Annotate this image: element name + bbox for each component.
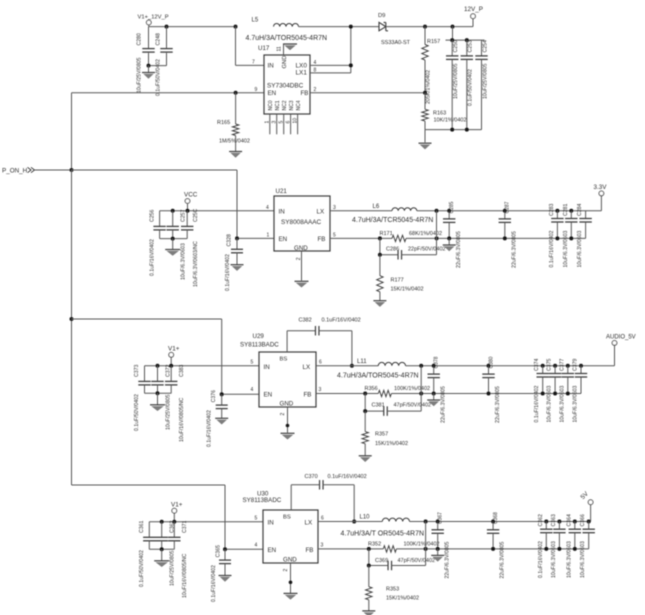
- svg-text:EN: EN: [268, 547, 277, 554]
- svg-text:2: 2: [280, 413, 286, 416]
- svg-text:U29: U29: [253, 333, 265, 340]
- ground: [231, 265, 244, 271]
- net VCC terminal: [184, 192, 198, 211]
- svg-text:BS: BS: [283, 514, 291, 520]
- op-amp U30 regulator box: [243, 491, 319, 564]
- svg-text:10uF/6.3V/0603: 10uF/6.3V/0603: [563, 230, 569, 267]
- ground: [359, 456, 372, 462]
- svg-text:R356: R356: [365, 386, 378, 392]
- svg-text:10uF/16V/0805/NC: 10uF/16V/0805/NC: [182, 553, 188, 598]
- svg-text:C368: C368: [493, 512, 499, 524]
- capacitor C381 feedforward: [365, 394, 431, 416]
- svg-text:U21: U21: [276, 188, 288, 195]
- svg-text:R352: R352: [368, 541, 381, 547]
- svg-text:SY8113BADC: SY8113BADC: [240, 342, 279, 349]
- wire VOUT tap: [419, 364, 423, 411]
- svg-text:L5: L5: [252, 18, 259, 24]
- svg-text:4: 4: [266, 205, 269, 211]
- net 12V_P output terminal: [464, 6, 483, 27]
- capacitor C284: [577, 203, 592, 267]
- capacitor C361: [139, 520, 156, 587]
- svg-text:NC1: NC1: [275, 100, 281, 110]
- ground: [419, 130, 432, 150]
- wire cluster bottom bus and ground: [160, 237, 188, 256]
- capacitor C256: [149, 209, 165, 276]
- svg-text:15K/1%/0402: 15K/1%/0402: [386, 596, 419, 602]
- svg-text:FB: FB: [301, 90, 309, 97]
- svg-text:R177: R177: [391, 278, 404, 284]
- resistor R171: [380, 231, 443, 242]
- svg-text:C366: C366: [580, 514, 586, 527]
- svg-text:22uF/6.3V/0805: 22uF/6.3V/0805: [511, 231, 517, 268]
- wire 3.3V output rail: [417, 196, 602, 211]
- net AUDIO_5V terminal: [606, 335, 636, 346]
- wire diode to 12V_P terminal: [386, 26, 473, 28]
- svg-text:0.1uF/16V/0402: 0.1uF/16V/0402: [538, 541, 544, 578]
- wire FB line: [330, 236, 586, 240]
- wire LX to L6: [330, 210, 392, 212]
- capacitor C368 output 22uF: [487, 512, 506, 579]
- svg-text:C377: C377: [559, 358, 565, 371]
- capacitor C362: [156, 520, 176, 586]
- capacitor C250: [446, 38, 459, 130]
- wire LX to L11: [316, 364, 378, 368]
- svg-text:1: 1: [267, 232, 270, 238]
- capacitor C248: [149, 25, 173, 96]
- capacitor C367 output 22uF: [432, 512, 451, 579]
- capacitor C372: [151, 364, 171, 430]
- svg-text:4.7uH/3A/T OR5045-4R7N: 4.7uH/3A/T OR5045-4R7N: [341, 530, 425, 537]
- svg-text:6: 6: [285, 121, 291, 124]
- svg-text:3: 3: [319, 387, 322, 393]
- wire LX to L10: [318, 520, 382, 524]
- capacitor C254: [475, 40, 488, 130]
- svg-text:C383: C383: [179, 364, 185, 377]
- svg-text:22uF/6.3V/0805: 22uF/6.3V/0805: [500, 541, 506, 578]
- capacitor C328 EN filter: [225, 234, 243, 291]
- svg-text:C374: C374: [534, 358, 540, 371]
- wire input rail: [145, 364, 260, 368]
- svg-text:10: 10: [292, 118, 298, 124]
- svg-text:5: 5: [251, 360, 254, 366]
- svg-text:47pF/50V/0402: 47pF/50V/0402: [394, 403, 432, 409]
- svg-text:EN: EN: [268, 90, 277, 97]
- ground: [229, 152, 242, 158]
- svg-text:R357: R357: [375, 432, 388, 438]
- svg-text:NC4: NC4: [296, 100, 302, 110]
- svg-text:0.1uF/16V/0402: 0.1uF/16V/0402: [328, 474, 367, 480]
- svg-text:15K/1%/0402: 15K/1%/0402: [391, 287, 424, 293]
- svg-text:10uF/25V/0805: 10uF/25V/0805: [170, 550, 176, 586]
- svg-text:9: 9: [255, 87, 258, 93]
- svg-text:C363: C363: [551, 514, 557, 527]
- svg-text:10uF/6.3V/0603: 10uF/6.3V/0603: [580, 541, 586, 578]
- wire EN bus to U17: [72, 93, 265, 170]
- node P_ON_H port: [2, 167, 74, 174]
- pin 2 GND stem and ground: [295, 251, 309, 288]
- svg-text:C365: C365: [216, 545, 222, 558]
- wire FB net: [310, 92, 425, 94]
- wire EN branch from bus: [72, 485, 264, 551]
- svg-text:C371: C371: [182, 520, 188, 533]
- svg-text:5: 5: [279, 121, 285, 124]
- svg-text:R157: R157: [427, 39, 440, 45]
- svg-text:BS: BS: [280, 357, 288, 363]
- svg-text:15K/1%/0402: 15K/1%/0402: [375, 441, 408, 447]
- svg-text:0.1uF/50V/0402: 0.1uF/50V/0402: [134, 394, 140, 431]
- capacitor C25C: [181, 208, 199, 287]
- svg-text:C25C: C25C: [193, 208, 199, 222]
- svg-text:C367: C367: [438, 512, 444, 524]
- svg-text:5: 5: [255, 515, 258, 521]
- svg-text:C375: C375: [547, 358, 553, 371]
- svg-text:EN: EN: [279, 236, 288, 243]
- net 3.3V terminal: [594, 184, 608, 196]
- svg-text:1M/5%/0402: 1M/5%/0402: [219, 139, 250, 145]
- inductor L11: [337, 359, 419, 379]
- capacitor C280: [137, 27, 155, 93]
- capacitor C363: [551, 514, 566, 578]
- svg-text:3: 3: [321, 543, 324, 549]
- inductor L10: [341, 515, 425, 538]
- wire EN branch from bus: [70, 317, 260, 396]
- svg-text:10uF/6.3V/0603: 10uF/6.3V/0603: [559, 385, 565, 422]
- svg-text:10uF/6.3V/0603: 10uF/6.3V/0603: [577, 230, 583, 267]
- pin 2 GND stem and ground: [283, 563, 298, 600]
- op-amp U17 regulator box: [258, 45, 310, 114]
- svg-text:LX0: LX0: [296, 62, 308, 69]
- svg-text:10uF/25V/0805: 10uF/25V/0805: [482, 63, 488, 99]
- svg-text:10uF/6.3V/0603: 10uF/6.3V/0603: [551, 541, 557, 578]
- svg-text:0.1uF/16V/0402: 0.1uF/16V/0402: [207, 410, 213, 447]
- capacitor C283: [549, 203, 564, 267]
- svg-text:22pF/50V/0402: 22pF/50V/0402: [408, 246, 446, 252]
- svg-text:100K/1%/0402: 100K/1%/0402: [404, 541, 440, 547]
- capacitor C364: [566, 514, 581, 578]
- svg-text:LX1: LX1: [296, 70, 308, 77]
- svg-text:47pF/50V/0402: 47pF/50V/0402: [398, 558, 436, 564]
- capacitor C286 feedforward: [380, 238, 446, 259]
- svg-text:22uF/6.3V/0805: 22uF/6.3V/0805: [495, 386, 501, 423]
- diode D9 SS33A0-ST: [378, 13, 411, 46]
- capacitor C377: [559, 358, 574, 422]
- svg-text:12V_P: 12V_P: [464, 6, 483, 13]
- wire EN branch from P_ON_H: [72, 170, 275, 240]
- svg-text:4.7uH/3A/TCR5045-4R7N: 4.7uH/3A/TCR5045-4R7N: [352, 217, 433, 224]
- svg-text:SY8113BADC: SY8113BADC: [243, 497, 282, 504]
- wire AUDIO_5V output rail: [406, 346, 615, 366]
- svg-text:GND: GND: [283, 556, 297, 563]
- resistor R352: [368, 541, 440, 552]
- capacitor C285 output 22uF: [443, 201, 462, 268]
- capacitor C380 output 22uF: [482, 356, 501, 423]
- svg-text:R165: R165: [217, 120, 230, 126]
- svg-text:10uF/25V/0805: 10uF/25V/0805: [166, 394, 172, 430]
- wire VCC input rail: [160, 209, 274, 213]
- svg-text:22uF/6.3V/0805: 22uF/6.3V/0805: [456, 231, 462, 268]
- svg-text:C285: C285: [449, 201, 455, 213]
- capacitor C374: [534, 358, 549, 422]
- capacitor C382 bootstrap: [287, 317, 361, 366]
- wire V1+ to IN pin: [234, 25, 265, 66]
- ground: [431, 549, 444, 562]
- svg-text:0.1uF/50V/0402: 0.1uF/50V/0402: [156, 59, 162, 96]
- capacitor C281: [563, 203, 578, 267]
- svg-text:IN: IN: [279, 208, 285, 215]
- svg-text:1: 1: [265, 121, 271, 124]
- pin 11 ground above U17: [277, 44, 298, 55]
- svg-text:U17: U17: [258, 45, 270, 52]
- svg-text:10uF/6.3V/0603: 10uF/6.3V/0603: [547, 385, 553, 422]
- svg-text:10K/1%/0402: 10K/1%/0402: [434, 118, 467, 124]
- svg-text:7: 7: [252, 60, 255, 66]
- wire cap bank bottom bus: [425, 128, 482, 132]
- svg-text:C372: C372: [166, 364, 172, 377]
- svg-text:0.1uF/16V/0402: 0.1uF/16V/0402: [534, 385, 540, 422]
- svg-text:C364: C364: [566, 514, 572, 527]
- ground: [427, 394, 440, 407]
- svg-text:0.1uF/16V/0402: 0.1uF/16V/0402: [149, 239, 155, 276]
- net 5V terminal: [579, 490, 593, 505]
- capacitor C362 output: [538, 514, 553, 578]
- svg-text:C283: C283: [549, 203, 555, 216]
- net V1+ 12V_P input terminal: [138, 15, 169, 27]
- wire FB line: [316, 392, 581, 396]
- svg-text:10uF/25V/0805: 10uF/25V/0805: [137, 57, 143, 93]
- svg-text:3: 3: [333, 205, 336, 211]
- pin 2 GND stem and ground: [280, 407, 295, 440]
- svg-text:SY8008AAAC: SY8008AAAC: [281, 219, 322, 226]
- svg-text:VCC: VCC: [184, 192, 198, 199]
- svg-text:68K/1%/0402: 68K/1%/0402: [409, 231, 442, 237]
- svg-text:C361: C361: [139, 520, 145, 533]
- svg-text:L11: L11: [357, 359, 367, 365]
- svg-text:0.1uF/50V/0402: 0.1uF/50V/0402: [468, 69, 474, 106]
- svg-text:C373: C373: [134, 364, 140, 377]
- ground: [362, 611, 375, 615]
- svg-text:6: 6: [319, 360, 322, 366]
- wire L5 to diode: [299, 26, 379, 28]
- capacitor C371: [168, 520, 188, 598]
- capacitor C369 feedforward: [369, 549, 435, 570]
- svg-text:V1+: V1+: [168, 346, 180, 353]
- svg-text:11: 11: [277, 46, 283, 51]
- svg-text:205K/1%/0402: 205K/1%/0402: [426, 70, 432, 104]
- NC pin stubs: [265, 114, 299, 134]
- svg-text:C287: C287: [505, 201, 511, 213]
- ground: [443, 238, 456, 251]
- svg-text:6: 6: [321, 515, 324, 521]
- resistor R356: [365, 386, 431, 397]
- svg-text:4.7uH/3A/TOR5045-4R7N: 4.7uH/3A/TOR5045-4R7N: [337, 372, 419, 379]
- svg-text:C382: C382: [299, 317, 312, 323]
- resistor R157: [422, 25, 440, 104]
- capacitor C379: [573, 358, 588, 422]
- svg-text:C286: C286: [386, 246, 399, 252]
- wire FB line: [318, 547, 589, 551]
- svg-text:V1+_12V_P: V1+_12V_P: [138, 15, 169, 21]
- svg-text:C379: C379: [573, 358, 579, 371]
- svg-text:10uF/6.3V/0603/NC: 10uF/6.3V/0603/NC: [193, 241, 199, 287]
- wire 12V input rail: [149, 26, 236, 28]
- svg-text:0.1uF/16V/0402: 0.1uF/16V/0402: [549, 230, 555, 267]
- op-amp U29 regulator box: [240, 333, 316, 407]
- capacitor C257: [167, 209, 187, 280]
- svg-text:SY7304DBC: SY7304DBC: [267, 83, 304, 90]
- svg-text:100K/1%/0402: 100K/1%/0402: [394, 386, 430, 392]
- svg-text:LX: LX: [317, 208, 325, 215]
- ground: [219, 576, 232, 582]
- svg-text:10uF/25V/0805: 10uF/25V/0805: [453, 63, 459, 99]
- svg-text:C284: C284: [577, 203, 583, 216]
- wire P_ON_H bus down left side: [71, 170, 73, 485]
- wire 5V output rail: [410, 505, 591, 522]
- resistor R177: [377, 253, 424, 301]
- svg-text:C370: C370: [305, 474, 318, 480]
- svg-text:C253: C253: [468, 40, 474, 53]
- capacitor C365 EN filter: [211, 545, 231, 602]
- svg-text:GND: GND: [280, 400, 294, 407]
- wire VOUT tap: [435, 209, 439, 255]
- inductor L6: [352, 204, 433, 224]
- svg-text:GND: GND: [294, 245, 308, 252]
- svg-text:L6: L6: [373, 204, 380, 210]
- svg-text:C250: C250: [453, 40, 459, 53]
- capacitor C383: [165, 364, 185, 442]
- svg-text:NC2: NC2: [282, 100, 288, 110]
- svg-text:P_ON_H: P_ON_H: [2, 167, 28, 174]
- svg-text:C280: C280: [137, 33, 143, 46]
- svg-text:0.1uF/16V/0402: 0.1uF/16V/0402: [322, 317, 361, 323]
- svg-text:2: 2: [296, 257, 302, 260]
- svg-text:AUDIO_5V: AUDIO_5V: [606, 335, 636, 341]
- svg-text:4: 4: [255, 543, 258, 549]
- svg-text:EN: EN: [264, 391, 273, 398]
- svg-text:FB: FB: [306, 547, 314, 554]
- svg-text:C328: C328: [227, 234, 233, 247]
- resistor R163: [422, 91, 467, 130]
- svg-text:LX: LX: [303, 364, 311, 371]
- svg-text:C257: C257: [181, 209, 187, 222]
- ground: [142, 64, 155, 79]
- svg-text:NC3: NC3: [289, 100, 295, 110]
- svg-text:10uF/6.3V/0603: 10uF/6.3V/0603: [566, 541, 572, 578]
- svg-text:C256: C256: [149, 209, 155, 222]
- svg-text:3.3V: 3.3V: [594, 184, 608, 191]
- net V1+ terminal: [168, 346, 180, 366]
- capacitor C253: [461, 38, 474, 130]
- ground: [215, 418, 228, 424]
- svg-text:C362: C362: [538, 514, 544, 527]
- svg-text:22uF/6.3V/0805: 22uF/6.3V/0805: [444, 541, 450, 578]
- svg-text:10uF/6.3V/0603: 10uF/6.3V/0603: [181, 243, 187, 280]
- resistor R165: [217, 91, 250, 152]
- capacitor C375: [547, 358, 562, 422]
- svg-text:4.7uH/3A/TOR5045-4R7N: 4.7uH/3A/TOR5045-4R7N: [246, 35, 328, 42]
- svg-text:IN: IN: [268, 520, 274, 527]
- svg-text:IN: IN: [268, 62, 274, 69]
- wire input rail: [149, 520, 263, 524]
- capacitor C370 bootstrap: [291, 474, 366, 521]
- svg-text:C248: C248: [156, 33, 162, 46]
- svg-text:2: 2: [283, 569, 289, 572]
- wire VOUT tap: [424, 520, 428, 566]
- svg-text:4: 4: [251, 387, 254, 393]
- svg-text:C281: C281: [563, 203, 569, 216]
- svg-text:R353: R353: [386, 587, 399, 593]
- svg-text:0.1uF/50V/0402: 0.1uF/50V/0402: [139, 550, 145, 587]
- svg-text:R163: R163: [433, 111, 446, 117]
- capacitor C287 output 22uF: [499, 201, 518, 268]
- svg-text:V1+: V1+: [171, 502, 183, 509]
- svg-text:C378: C378: [434, 356, 440, 368]
- svg-text:C369: C369: [375, 558, 388, 564]
- svg-text:C376: C376: [211, 390, 217, 403]
- svg-text:SS33A0-ST: SS33A0-ST: [381, 40, 411, 46]
- wire LX0 LX1 to rail: [310, 25, 353, 73]
- svg-text:3: 3: [272, 121, 278, 124]
- svg-text:22uF/6.3V/0805: 22uF/6.3V/0805: [440, 386, 446, 423]
- wire cap bank top bus: [446, 25, 485, 40]
- svg-text:C254: C254: [482, 40, 488, 53]
- ground: [373, 301, 386, 307]
- capacitor C378 output 22uF: [428, 356, 447, 423]
- svg-text:NC0: NC0: [268, 100, 274, 110]
- capacitor C366: [580, 514, 595, 578]
- svg-text:2: 2: [314, 87, 317, 93]
- svg-text:FB: FB: [304, 391, 312, 398]
- svg-text:0.1uF/16V/0402: 0.1uF/16V/0402: [225, 254, 231, 291]
- svg-text:0.1uF/16V/0402: 0.1uF/16V/0402: [211, 565, 217, 602]
- svg-text:10uF/6.3V/0603: 10uF/6.3V/0603: [573, 385, 579, 422]
- svg-text:D9: D9: [378, 13, 385, 19]
- capacitor C373: [134, 364, 151, 431]
- svg-text:LX: LX: [305, 520, 313, 527]
- svg-text:L10: L10: [360, 515, 371, 521]
- svg-text:IN: IN: [264, 364, 270, 371]
- resistor R357: [362, 409, 408, 455]
- svg-text:10uF/16V/0805/NC: 10uF/16V/0805/NC: [179, 397, 185, 442]
- svg-text:C380: C380: [488, 356, 494, 368]
- inductor L5: [246, 18, 328, 43]
- resistor R353: [366, 564, 419, 611]
- svg-text:5: 5: [333, 232, 336, 238]
- wire cluster bottom bus and ground: [149, 547, 174, 567]
- svg-text:FB: FB: [318, 236, 326, 243]
- svg-text:R171: R171: [380, 231, 393, 237]
- capacitor C376 EN filter: [207, 390, 228, 447]
- op-amp U21 regulator box: [274, 188, 330, 252]
- svg-text:C381: C381: [372, 403, 385, 409]
- wire cluster bottom bus and ground: [145, 391, 172, 411]
- net V1+ terminal: [171, 502, 183, 522]
- svg-text:GND: GND: [282, 56, 288, 69]
